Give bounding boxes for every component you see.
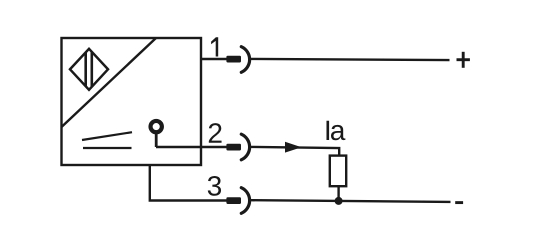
label 3 (208, 176, 221, 196)
wire: box to terminal 1 pin (201, 58, 228, 60)
wire: circle to terminal 2 pin (156, 146, 228, 148)
minus terminal (455, 201, 463, 204)
terminal 1 socket arc (241, 47, 249, 73)
terminal 3 pin (226, 197, 241, 204)
terminal 3 socket arc (241, 188, 249, 214)
wire: resistor bottom to wire 3 (337, 186, 339, 201)
arrow on wire 2 (285, 142, 302, 153)
wire: box bottom to terminal 3 (down then right) (150, 165, 228, 201)
resistor Ia (load) (330, 156, 346, 187)
inductive proximity sensor symbol (diamond) (70, 48, 108, 90)
label 2 (209, 123, 222, 143)
plus terminal (457, 52, 470, 68)
terminal 1 pin (226, 56, 241, 63)
sensor body box (62, 38, 202, 165)
wire: terminal 3 to minus (251, 200, 451, 202)
terminal 2 socket arc (241, 134, 249, 160)
label Ia (326, 121, 329, 140)
adjustment ramp symbol (82, 132, 132, 148)
label 1 (211, 37, 218, 56)
junction dot (335, 197, 343, 205)
output stage circle (151, 121, 162, 147)
separator diagonal (62, 38, 157, 127)
terminal 2 pin (226, 144, 241, 151)
wire: terminal 1 to plus (251, 59, 450, 60)
wire: terminal 2 to load (251, 147, 340, 156)
